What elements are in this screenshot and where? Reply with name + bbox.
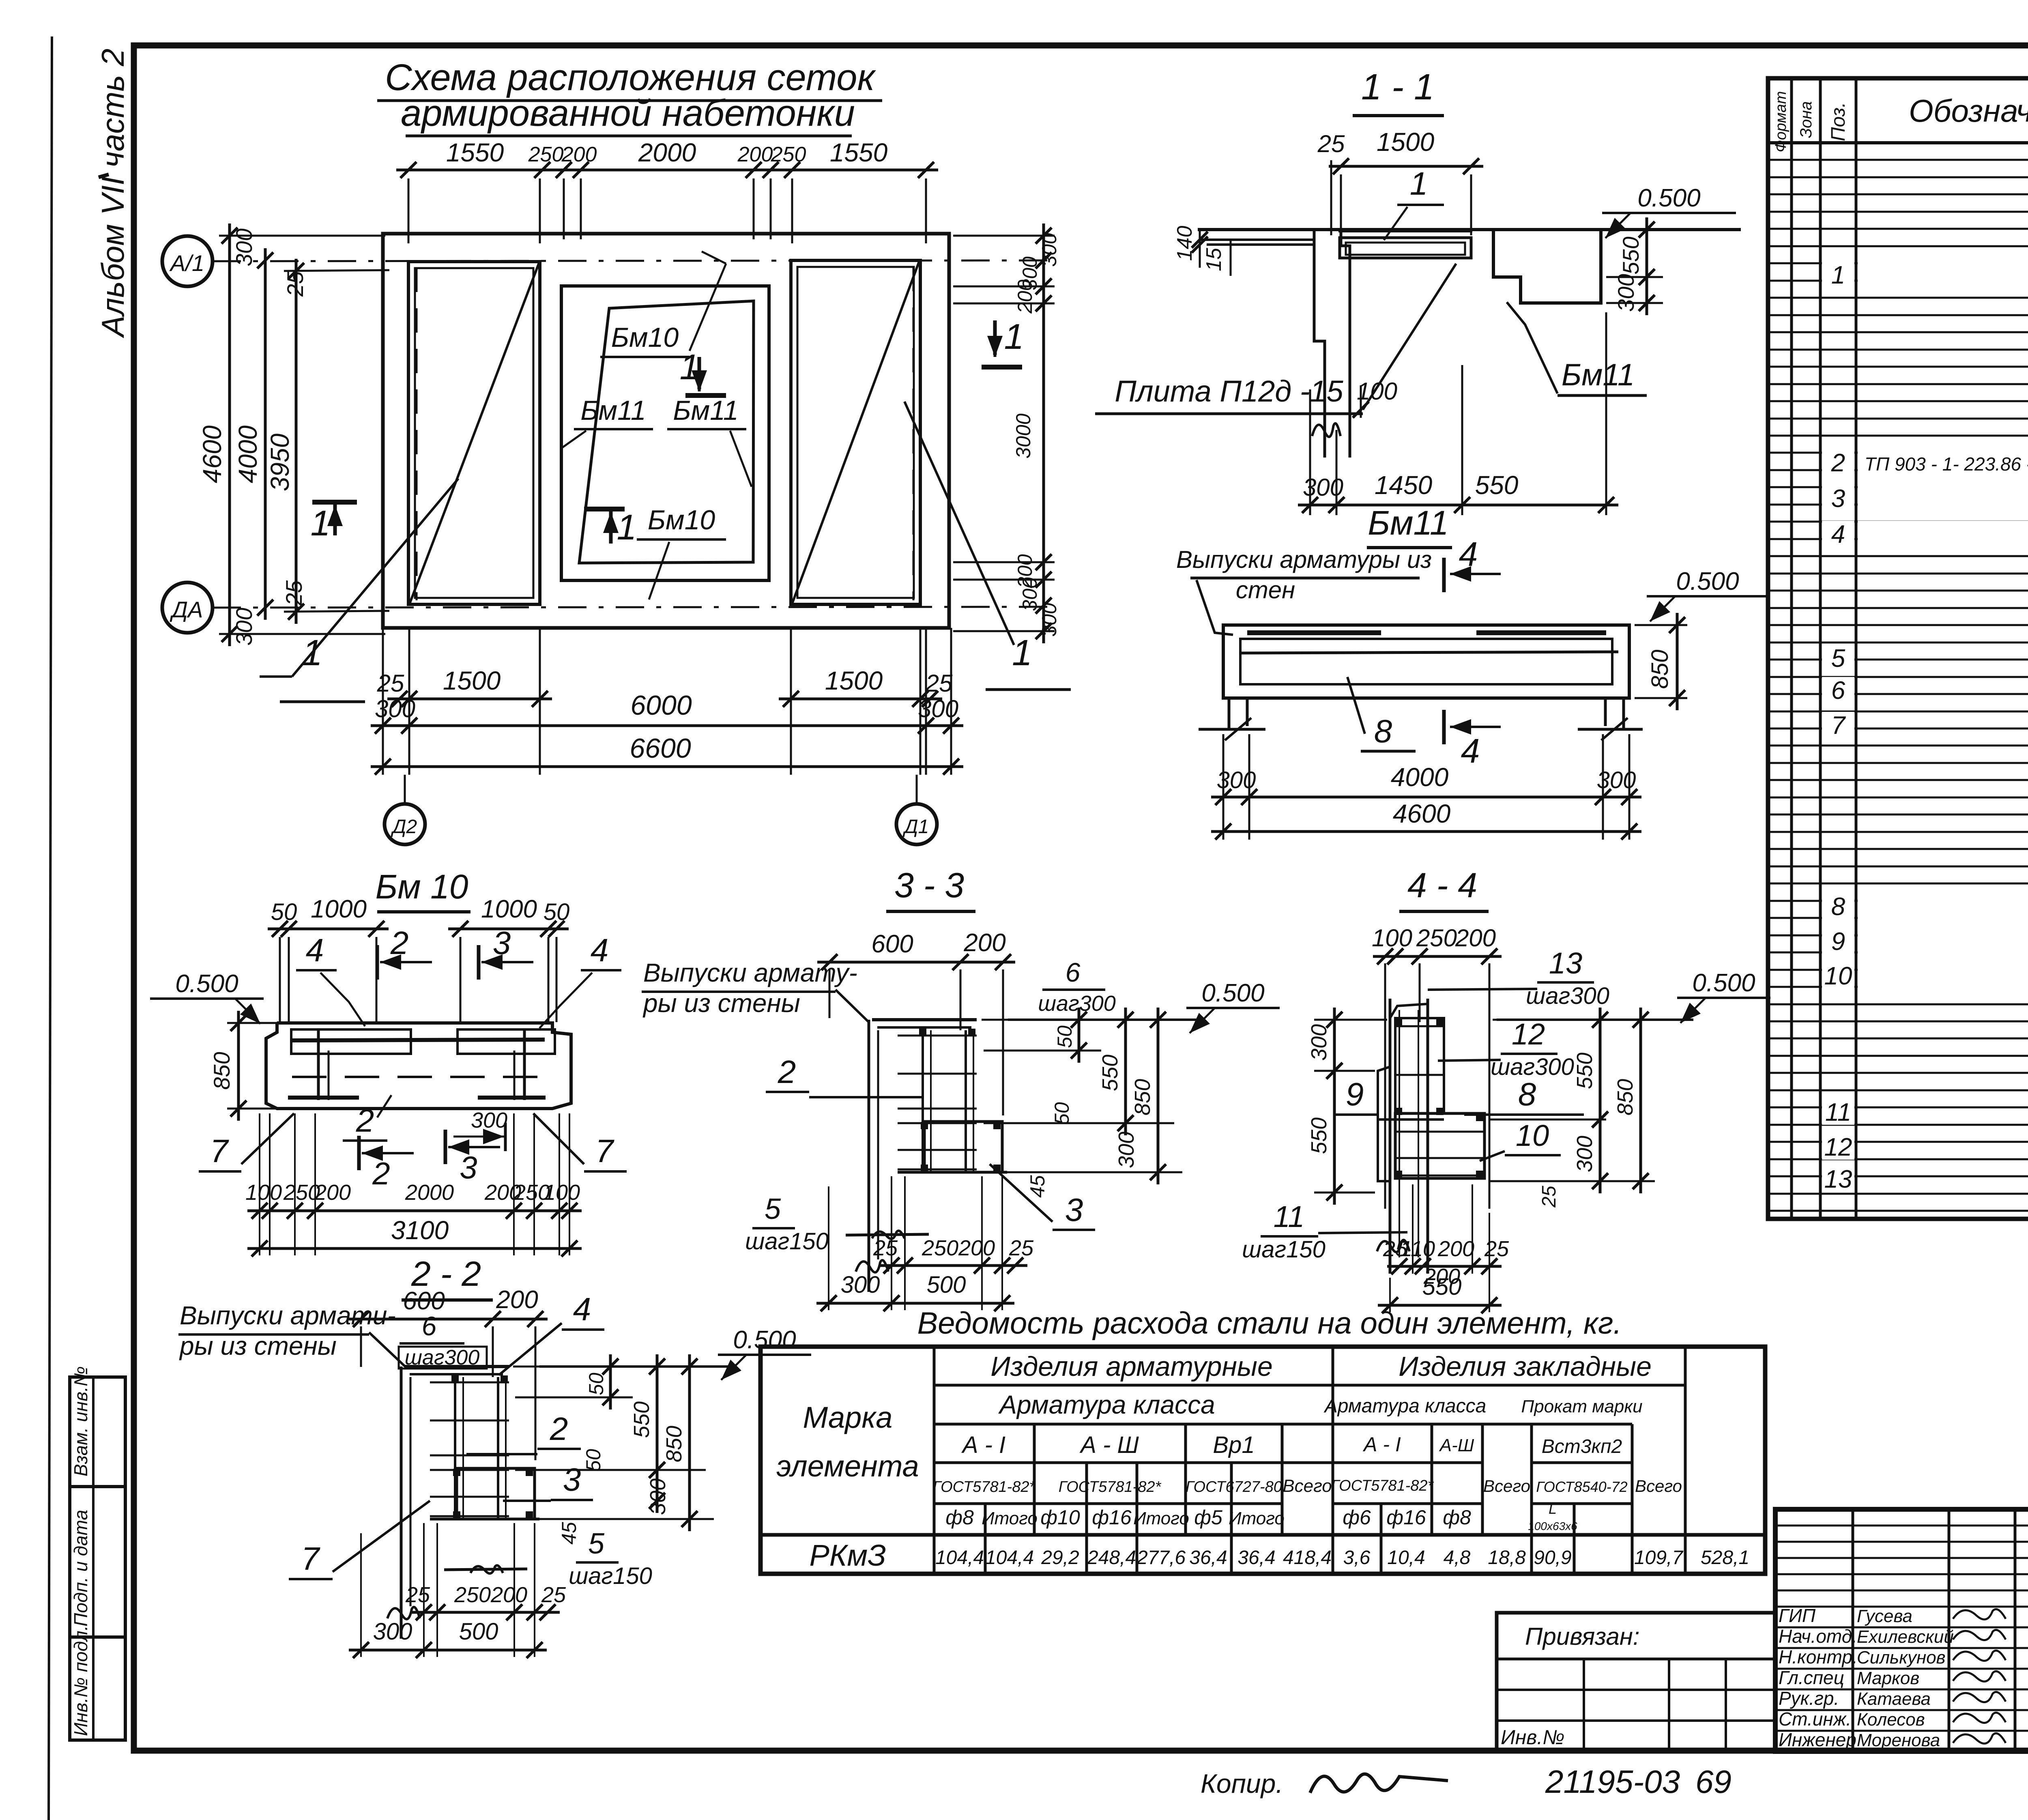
svg-text:шаг150: шаг150 [745, 1228, 829, 1255]
svg-text:25: 25 [1484, 1237, 1509, 1261]
svg-text:550: 550 [1475, 471, 1519, 500]
svg-text:300: 300 [231, 608, 257, 645]
section 1-1 bottom dims 300/1450/550 [1298, 504, 1618, 507]
svg-text:200: 200 [963, 929, 1005, 957]
svg-text:Инженер: Инженер [1779, 1729, 1856, 1750]
2-2 bottom dims 300/500 [349, 1649, 547, 1652]
svg-text:4: 4 [1831, 520, 1845, 548]
svg-text:L: L [1549, 1500, 1557, 1517]
spec row poz1: сетка С [1858, 262, 2028, 288]
Бм11 bottom dim 300/4000/300 [1211, 796, 1641, 799]
svg-text:12: 12 [1824, 1133, 1852, 1161]
svg-text:Моренова: Моренова [1857, 1730, 1940, 1750]
svg-text:2: 2 [550, 1411, 568, 1447]
spec row poz4 С8 [1858, 521, 2028, 547]
svg-text:250: 250 [771, 143, 806, 166]
svg-text:1: 1 [617, 507, 637, 547]
svg-text:ГИП: ГИП [1779, 1605, 1816, 1626]
svg-text:Марков: Марков [1857, 1668, 1919, 1688]
svg-text:3,6: 3,6 [1343, 1547, 1371, 1569]
svg-text:Зона: Зона [1797, 101, 1815, 138]
svg-text:12: 12 [1512, 1017, 1545, 1051]
paper edge left [49, 37, 52, 1820]
svg-text:4000: 4000 [1391, 763, 1449, 792]
plan: section mark 1 outside left [312, 500, 357, 505]
section 1-1 plita P12d slab [1340, 238, 1471, 258]
svg-text:Бм 10: Бм 10 [375, 868, 468, 906]
svg-text:РКмЗ: РКмЗ [809, 1539, 886, 1572]
Бм10 bottom chord bars [288, 1096, 359, 1100]
svg-text:Катаева: Катаева [1857, 1689, 1931, 1709]
section 1-1 top dim 25/1500 [1329, 165, 1483, 168]
svg-text:Рук.гр.: Рук.гр. [1779, 1688, 1839, 1709]
svg-text:А - I: А - I [961, 1432, 1005, 1458]
svg-text:8: 8 [1518, 1076, 1536, 1112]
svg-text:104,4: 104,4 [935, 1547, 984, 1569]
svg-text:18,8: 18,8 [1488, 1547, 1526, 1569]
Бм10 vertical bars [317, 1029, 320, 1100]
svg-text:0.500: 0.500 [175, 970, 238, 998]
svg-text:Бм11: Бм11 [673, 395, 738, 426]
svg-text:Всего: Всего [1283, 1476, 1332, 1496]
section 1-1 dims 140/15 [1199, 230, 1201, 268]
svg-text:Инв.№ подл.: Инв.№ подл. [70, 1625, 91, 1736]
svg-text:200: 200 [314, 1180, 351, 1205]
svg-text:Подп. и дата: Подп. и дата [70, 1510, 91, 1627]
svg-text:8: 8 [1374, 713, 1392, 749]
3-3 lower box [924, 1122, 1002, 1172]
plan: outer wall rectangle [383, 234, 949, 628]
svg-text:7: 7 [210, 1133, 229, 1169]
svg-text:3: 3 [563, 1461, 581, 1498]
section 1-1 ground line [1198, 228, 1741, 231]
svg-text:ТП 903 - 1- 223.86 -КЖИ-023.: ТП 903 - 1- 223.86 -КЖИ-023.020 [1865, 453, 2028, 475]
3-3 stirrup lines [898, 1035, 977, 1037]
svg-text:Итого: Итого [1133, 1508, 1189, 1528]
Бм10 section marks 2,3 top [376, 945, 379, 980]
svg-text:9: 9 [1346, 1076, 1364, 1112]
plan: right dimension line 300/300/200/3000/200/300/300 [1042, 223, 1045, 643]
svg-text:69: 69 [1695, 1764, 1732, 1800]
spec table fine row lines [1768, 159, 2028, 161]
4-4 wall strip [1389, 999, 1392, 1274]
2-2 top bars [404, 1365, 509, 1368]
svg-text:Д2: Д2 [391, 816, 417, 838]
svg-text:Ехилевский: Ехилевский [1857, 1627, 1954, 1647]
svg-text:ДА: ДА [170, 597, 203, 622]
svg-text:4: 4 [1461, 732, 1480, 770]
Бм11 right dim 850 [1635, 624, 1687, 626]
svg-text:10: 10 [1824, 962, 1852, 990]
svg-text:2: 2 [372, 1156, 390, 1191]
plan: axis line DA [213, 607, 1051, 608]
plan: leader poz1 left [292, 479, 458, 677]
svg-text:550: 550 [629, 1401, 654, 1438]
svg-text:25: 25 [541, 1583, 566, 1607]
svg-text:1: 1 [302, 633, 322, 673]
3-3 cage verticals [922, 1030, 924, 1172]
svg-text:Бм10: Бм10 [648, 505, 715, 535]
4-4 left dims 300/550 [1314, 1019, 1387, 1021]
svg-text:50: 50 [582, 1449, 605, 1472]
2-2 cage verticals [454, 1377, 456, 1519]
svg-text:4: 4 [591, 932, 609, 968]
svg-text:Поз.: Поз. [1828, 102, 1849, 142]
svg-text:100: 100 [245, 1180, 282, 1205]
svg-text:ры из стены: ры из стены [642, 988, 800, 1018]
svg-text:6: 6 [1066, 957, 1081, 987]
svg-text:100: 100 [1357, 378, 1397, 405]
svg-text:4: 4 [1459, 535, 1478, 573]
svg-text:15: 15 [1202, 247, 1226, 271]
svg-text:90,9: 90,9 [1534, 1547, 1571, 1569]
plan: top dimension line 1550/250/200/2000/200/250/1550 [396, 169, 938, 172]
svg-text:Изделия закладные: Изделия закладные [1399, 1351, 1652, 1382]
svg-text:300: 300 [1038, 233, 1061, 267]
svg-text:200: 200 [1455, 924, 1496, 952]
svg-text:1: 1 [311, 503, 331, 543]
svg-text:11: 11 [1274, 1200, 1305, 1233]
svg-text:200: 200 [490, 1583, 527, 1607]
svg-text:1000: 1000 [311, 895, 367, 923]
svg-text:500: 500 [459, 1618, 498, 1645]
svg-text:50: 50 [585, 1373, 608, 1395]
svg-text:10,4: 10,4 [1387, 1547, 1425, 1569]
2-2 top dims 600/200 [349, 1318, 548, 1321]
svg-text:Схема расположения сеток: Схема расположения сеток [385, 57, 876, 98]
svg-text:25: 25 [1009, 1236, 1034, 1260]
Бм11 legs [1228, 698, 1231, 729]
svg-text:1500: 1500 [1377, 127, 1435, 157]
svg-text:0.500: 0.500 [1637, 184, 1700, 212]
svg-text:1450: 1450 [1375, 471, 1433, 500]
svg-text:25: 25 [281, 580, 307, 606]
svg-text:300: 300 [1307, 1024, 1331, 1061]
svg-text:2: 2 [356, 1102, 374, 1139]
svg-text:1000: 1000 [481, 895, 537, 923]
svg-text:300: 300 [471, 1108, 507, 1132]
svg-text:Н.контр.: Н.контр. [1779, 1646, 1858, 1667]
svg-text:1500: 1500 [825, 666, 883, 695]
svg-text:4: 4 [573, 1291, 591, 1327]
svg-text:29,2: 29,2 [1041, 1547, 1079, 1569]
svg-text:10: 10 [1516, 1119, 1549, 1152]
plan: section mark 1 outside right [994, 320, 997, 357]
svg-text:2: 2 [390, 925, 409, 961]
svg-text:850: 850 [662, 1426, 686, 1462]
svg-text:ры из стены: ры из стены [179, 1331, 337, 1360]
svg-text:ф16: ф16 [1092, 1506, 1132, 1529]
svg-text:Итого: Итого [982, 1508, 1038, 1528]
svg-text:Д1: Д1 [902, 816, 929, 838]
spec row poz9 КР10 [1858, 928, 2028, 954]
svg-text:200: 200 [1437, 1237, 1474, 1261]
svg-text:100: 100 [1372, 924, 1412, 952]
svg-text:250: 250 [528, 143, 564, 166]
plan: middle opening inner mesh [579, 301, 754, 563]
svg-text:300: 300 [373, 1618, 412, 1645]
svg-text:140: 140 [1173, 226, 1197, 261]
svg-text:ГОСТ5781-82*: ГОСТ5781-82* [1331, 1477, 1434, 1494]
svg-text:250: 250 [454, 1583, 491, 1607]
svg-text:ГОСТ8540-72: ГОСТ8540-72 [1536, 1478, 1627, 1495]
svg-text:45: 45 [558, 1522, 580, 1545]
svg-text:200: 200 [1014, 279, 1036, 314]
svg-text:550: 550 [1098, 1055, 1122, 1091]
spec row poz8 КР9 [1858, 893, 2028, 919]
svg-text:1500: 1500 [443, 666, 501, 695]
svg-text:ГОСТ5781-82*: ГОСТ5781-82* [1059, 1478, 1162, 1496]
svg-text:3000: 3000 [1012, 413, 1035, 458]
svg-text:Вр1: Вр1 [1213, 1432, 1255, 1458]
svg-text:11: 11 [1825, 1098, 1851, 1126]
svg-text:300: 300 [646, 1478, 670, 1515]
svg-text:36,4: 36,4 [1237, 1547, 1275, 1569]
steel table outer [760, 1347, 1765, 1574]
svg-text:ГОСТ5781-82*: ГОСТ5781-82* [933, 1478, 1036, 1496]
3-3 top dims 600/200 [817, 961, 1015, 964]
svg-text:Привязан:: Привязан: [1525, 1623, 1640, 1650]
plan: section mark 1 up (lower) [584, 507, 625, 511]
svg-text:А - Ш: А - Ш [1079, 1432, 1139, 1458]
svg-text:300: 300 [1114, 1132, 1139, 1168]
svg-text:3: 3 [1065, 1192, 1083, 1228]
svg-text:0.500: 0.500 [1692, 969, 1755, 997]
4-4 bottom dims 25/110/200/25 [1387, 1265, 1502, 1268]
side table Взам/Подп/Инв [70, 1377, 125, 1740]
svg-text:25: 25 [925, 670, 953, 697]
plan: axis circle A/1 [162, 236, 213, 286]
svg-text:418,4: 418,4 [1283, 1547, 1332, 1569]
svg-text:0.500: 0.500 [1676, 567, 1739, 595]
svg-text:шаг300: шаг300 [1038, 991, 1116, 1016]
svg-text:110: 110 [1400, 1237, 1435, 1261]
steel table horizontals [934, 1384, 1685, 1387]
svg-text:300: 300 [918, 695, 958, 722]
svg-text:6000: 6000 [630, 690, 692, 721]
3-3 corner bar dots [921, 1122, 928, 1129]
svg-text:Инв.№: Инв.№ [1501, 1726, 1564, 1749]
svg-text:200: 200 [561, 143, 597, 166]
svg-text:1: 1 [1004, 316, 1024, 357]
svg-text:4,8: 4,8 [1444, 1547, 1471, 1569]
svg-text:104,4: 104,4 [985, 1547, 1034, 1569]
svg-text:250: 250 [1416, 924, 1457, 952]
section 1-1 left slab double line [1200, 239, 1314, 241]
svg-text:300: 300 [841, 1272, 880, 1298]
plan: bottom extension lines [382, 628, 384, 775]
plan: axis circle Д1 [916, 775, 918, 805]
svg-text:Всего: Всего [1483, 1476, 1530, 1496]
svg-text:Прокат марки: Прокат марки [1521, 1397, 1642, 1416]
spec table column lines [1790, 78, 1793, 1219]
svg-text:Выпуски арматуры из: Выпуски арматуры из [1176, 546, 1432, 573]
svg-text:300: 300 [231, 228, 257, 266]
3-3 bottom dims 300/500 [816, 1302, 1014, 1305]
svg-text:200: 200 [737, 143, 773, 166]
section 1-1 wall [1314, 230, 1325, 458]
svg-text:Колесов: Колесов [1857, 1710, 1925, 1730]
svg-text:6600: 6600 [629, 733, 691, 764]
4-4 corner bar dots [1395, 1019, 1402, 1026]
plan: middle opening outer (Бм frame) [561, 286, 769, 580]
svg-text:3950: 3950 [265, 433, 294, 491]
svg-text:277,6: 277,6 [1136, 1547, 1186, 1569]
svg-text:1: 1 [1410, 165, 1428, 202]
svg-text:7: 7 [595, 1133, 614, 1169]
2-2 wall verticals [400, 1367, 403, 1639]
section 1-1 beam Бм11 cut [1493, 230, 1601, 303]
svg-text:элемента: элемента [776, 1449, 919, 1483]
Бм10 bottom extension lines [259, 1113, 260, 1255]
svg-text:300: 300 [1613, 274, 1639, 312]
svg-text:ф10: ф10 [1040, 1506, 1080, 1529]
4-4 top dims 100/250/200 [1373, 955, 1502, 958]
svg-text:Формат: Формат [1772, 91, 1790, 153]
svg-text:6: 6 [422, 1311, 437, 1341]
svg-text:2: 2 [778, 1054, 796, 1090]
2-2 corner bar dots [453, 1469, 460, 1476]
svg-text:248,4: 248,4 [1087, 1547, 1136, 1569]
4-4 bottom dim 550 [1378, 1304, 1502, 1307]
svg-text:стен: стен [1236, 576, 1295, 604]
svg-text:850: 850 [1613, 1079, 1637, 1115]
svg-text:200: 200 [496, 1286, 538, 1314]
svg-text:Всего: Всего [1635, 1476, 1682, 1496]
svg-text:8: 8 [1831, 893, 1845, 921]
svg-text:3: 3 [460, 1150, 477, 1185]
svg-text:250: 250 [922, 1236, 958, 1260]
svg-text:ф8: ф8 [1443, 1506, 1471, 1529]
svg-text:1: 1 [1012, 633, 1032, 673]
svg-text:36,4: 36,4 [1189, 1547, 1227, 1569]
title block outer [1775, 1509, 2028, 1751]
svg-text:4: 4 [306, 932, 324, 968]
plan: bottom dim 300/6000/300 [371, 724, 963, 727]
svg-text:4 - 4: 4 - 4 [1407, 866, 1477, 905]
svg-text:Бм10: Бм10 [611, 322, 679, 353]
svg-text:850: 850 [1130, 1079, 1155, 1115]
Бм10 dashed middle axis [292, 1076, 539, 1078]
Бм11 note leader [1197, 580, 1233, 635]
plan: bottom dims 25/1500 left and right [387, 698, 552, 700]
svg-text:1550: 1550 [830, 138, 888, 167]
privyazan table [1497, 1613, 1775, 1751]
svg-text:600: 600 [871, 930, 913, 958]
Бм11 label 8 with leader [1347, 677, 1365, 734]
svg-text:Ст.инж.: Ст.инж. [1779, 1708, 1851, 1730]
svg-text:9: 9 [1831, 928, 1845, 956]
2-2 lower box [457, 1468, 535, 1519]
svg-text:25: 25 [405, 1583, 430, 1607]
svg-text:550: 550 [1422, 1274, 1462, 1300]
Бм11 beam outline [1223, 625, 1629, 698]
svg-text:200: 200 [958, 1236, 995, 1260]
svg-text:шаг150: шаг150 [1242, 1236, 1326, 1263]
svg-text:25: 25 [1317, 130, 1345, 157]
4-4 top cap [1390, 1004, 1428, 1018]
plan: axis circle DA [162, 582, 213, 633]
svg-text:5: 5 [1831, 645, 1845, 673]
svg-text:Вст3кп2: Вст3кп2 [1542, 1436, 1622, 1457]
2-2 stirrup lines [430, 1382, 509, 1384]
svg-text:21195-03: 21195-03 [1545, 1764, 1680, 1800]
svg-text:Арматура класса: Арматура класса [998, 1390, 1215, 1419]
svg-text:25: 25 [1538, 1186, 1560, 1208]
svg-text:3 - 3: 3 - 3 [894, 866, 964, 905]
svg-text:25: 25 [377, 670, 404, 697]
svg-text:ГОСТ6727-80: ГОСТ6727-80 [1186, 1478, 1282, 1496]
3-3 right dims [982, 1019, 1101, 1021]
svg-text:Ведомость расхода стали на: Ведомость расхода стали на один элемент,… [917, 1306, 1622, 1341]
svg-text:3: 3 [1831, 485, 1845, 513]
plan: axis line A/1 [213, 260, 1051, 261]
svg-text:528,1: 528,1 [1701, 1547, 1749, 1569]
svg-text:шаг300: шаг300 [1526, 983, 1609, 1009]
svg-text:550: 550 [1618, 236, 1643, 274]
svg-text:А/1: А/1 [169, 250, 204, 276]
svg-text:Изделия арматурные: Изделия арматурные [990, 1351, 1273, 1382]
Бм10 left dim 850 [227, 1022, 280, 1024]
steel table verticals [933, 1347, 936, 1574]
Бм11 top rebar segments [1247, 630, 1381, 635]
Бм10 bottom dims 100/250/200/2000/200/250/100 [247, 1210, 582, 1212]
svg-text:50: 50 [1051, 1102, 1073, 1125]
4-4 upper cage box [1395, 1018, 1444, 1113]
svg-text:2: 2 [1831, 449, 1845, 477]
svg-text:Копир.: Копир. [1201, 1768, 1283, 1799]
svg-text:45: 45 [1026, 1175, 1049, 1198]
plan: leader poz1 right [904, 402, 1014, 645]
plan: top extension lines [408, 178, 410, 243]
svg-text:А-Ш: А-Ш [1439, 1435, 1474, 1455]
4-4 left step [1378, 1067, 1390, 1181]
plan: axis circle Д2 [404, 775, 406, 805]
svg-text:7: 7 [301, 1541, 320, 1577]
svg-text:ф6: ф6 [1343, 1506, 1371, 1529]
svg-text:1: 1 [1831, 261, 1845, 289]
svg-text:0.500: 0.500 [1201, 979, 1264, 1007]
spec row poz3 КР4 [1858, 485, 2028, 511]
Бм10 top dims 50/1000 [268, 928, 389, 930]
svg-text:Обозначение: Обозначение [1909, 93, 2028, 129]
svg-text:13: 13 [1549, 946, 1582, 980]
svg-text:2000: 2000 [638, 138, 696, 167]
svg-text:5: 5 [588, 1528, 605, 1560]
svg-text:25: 25 [873, 1236, 898, 1260]
plan: right opening with mesh diagonal (poz 1) [791, 260, 920, 604]
svg-text:7: 7 [1831, 711, 1846, 739]
svg-text:Бм11: Бм11 [1368, 504, 1448, 542]
spec table outer [1768, 78, 2028, 1219]
3-3 wall verticals [868, 1020, 870, 1292]
svg-text:4600: 4600 [1393, 799, 1451, 828]
3-3 top bars [872, 1018, 977, 1021]
svg-text:50: 50 [1053, 1025, 1076, 1048]
svg-text:А - I: А - I [1362, 1433, 1401, 1456]
svg-text:50: 50 [544, 899, 570, 925]
svg-text:Бм11: Бм11 [580, 395, 646, 426]
Бм10 dim 300 small [453, 1136, 504, 1138]
svg-text:Бм11: Бм11 [1562, 358, 1635, 392]
svg-text:Гл.спец: Гл.спец [1779, 1667, 1844, 1688]
svg-text:5: 5 [765, 1193, 781, 1225]
svg-text:4600: 4600 [198, 425, 227, 483]
svg-text:300: 300 [1573, 1136, 1597, 1172]
plan: left opening with mesh diagonal (poz 1) [408, 262, 540, 604]
svg-text:850: 850 [1647, 650, 1673, 689]
svg-text:Гусева: Гусева [1857, 1606, 1912, 1626]
